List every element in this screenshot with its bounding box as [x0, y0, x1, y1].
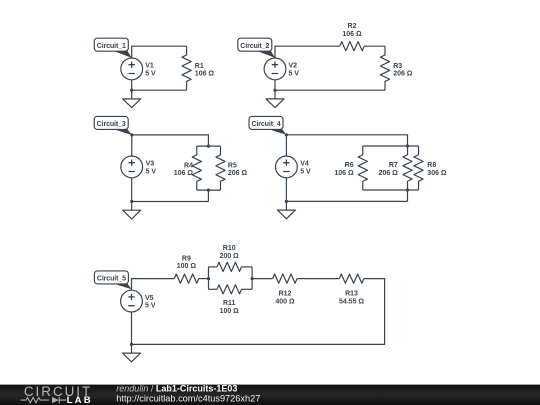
wire C5 rail R9-par: [199, 278, 209, 280]
wire C3 source bottom: [131, 178, 133, 202]
wire C3 par bottom branch: [197, 189, 221, 191]
junction C4 par top: [406, 144, 409, 147]
svg-text:200 Ω: 200 Ω: [220, 253, 240, 260]
wire C4 source top: [285, 135, 287, 156]
svg-text:Circuit_2: Circuit_2: [240, 43, 269, 50]
svg-text:R11: R11: [223, 300, 236, 307]
wire C2 top rail left: [275, 46, 340, 58]
label R12 value: [275, 291, 295, 306]
svg-text:106 Ω: 106 Ω: [342, 31, 362, 38]
svg-text:R12: R12: [279, 291, 292, 298]
ground C1: [123, 90, 141, 107]
label R1 value: [195, 63, 215, 78]
resistor R2: [340, 42, 365, 51]
label Circuit_2: [238, 38, 275, 58]
wire C5 par left vert: [208, 267, 210, 289]
label Circuit_1: [94, 38, 131, 58]
resistor R6: [358, 146, 367, 190]
label R11 value: [220, 300, 240, 315]
svg-text:Circuit_3: Circuit_3: [97, 121, 126, 128]
footer bar: [0, 385, 540, 405]
svg-text:R10: R10: [223, 245, 236, 252]
voltage source V1: [121, 58, 156, 80]
wire C3 par drop: [207, 190, 209, 201]
ground C3: [123, 202, 141, 219]
svg-text:5 V: 5 V: [300, 168, 311, 175]
svg-text:5 V: 5 V: [146, 168, 157, 175]
svg-text:5 V: 5 V: [145, 70, 156, 77]
voltage source V3: [121, 156, 157, 178]
label R7 value: [379, 162, 399, 177]
wire C4 source bottom: [285, 178, 287, 202]
svg-text:54.55 Ω: 54.55 Ω: [339, 299, 364, 306]
junction C4 gnd node: [285, 200, 288, 203]
ground C5: [123, 344, 141, 361]
svg-text:R9: R9: [182, 255, 191, 262]
wire C3 source top: [131, 135, 133, 156]
wire C5 par top lead L: [209, 266, 218, 268]
wire C4 par top branch: [363, 145, 419, 147]
svg-text:206 Ω: 206 Ω: [379, 170, 399, 177]
svg-text:R7: R7: [389, 162, 398, 169]
junction C1 gnd node: [130, 89, 133, 92]
wire C5 par top lead R: [242, 266, 253, 268]
svg-text:R2: R2: [348, 23, 357, 30]
svg-text:106 Ω: 106 Ω: [195, 71, 215, 78]
wire C5 source bottom: [131, 312, 133, 344]
wire C5 par bot lead R: [242, 288, 253, 290]
svg-text:206 Ω: 206 Ω: [228, 170, 248, 177]
junction C3 label node: [130, 133, 133, 136]
junction C4 par bottom: [406, 188, 409, 191]
label Circuit_3: [94, 116, 132, 134]
resistor R3: [380, 46, 389, 90]
svg-text:V4: V4: [300, 161, 309, 168]
wire C5 rail par-R12: [252, 278, 273, 280]
svg-text:400 Ω: 400 Ω: [275, 299, 295, 306]
ground C4: [277, 201, 295, 218]
svg-text:V2: V2: [289, 63, 298, 70]
resistor R12: [273, 274, 298, 283]
svg-text:206 Ω: 206 Ω: [393, 71, 413, 78]
svg-text:R13: R13: [345, 291, 358, 298]
label R4 value: [174, 162, 194, 177]
label R10 value: [220, 245, 240, 260]
label R5 value: [228, 162, 248, 177]
svg-text:5 V: 5 V: [289, 70, 300, 77]
svg-text:Circuit_1: Circuit_1: [97, 43, 126, 50]
svg-text:R6: R6: [345, 162, 354, 169]
svg-text:R3: R3: [393, 63, 402, 70]
wire C2 bottom rail: [275, 89, 385, 91]
svg-text:R4: R4: [184, 162, 193, 169]
svg-text:V1: V1: [145, 63, 154, 70]
wire C5 par bot lead L: [209, 288, 218, 290]
wire C5 rail R12-R13: [297, 278, 339, 280]
wire C2 source bottom: [274, 80, 276, 90]
label R9 value: [177, 255, 197, 270]
label R3 value: [393, 63, 413, 78]
wire C4 par drop: [407, 190, 409, 201]
junction C3 par bottom: [207, 189, 210, 192]
label R2 value: [342, 23, 362, 38]
resistor R4: [192, 146, 201, 190]
label R13 value: [339, 291, 364, 306]
label Circuit_5: [94, 271, 131, 289]
svg-text:100 Ω: 100 Ω: [177, 263, 197, 270]
junction C3 par top: [207, 145, 210, 148]
resistor R9: [174, 274, 199, 283]
svg-text:106 Ω: 106 Ω: [174, 170, 194, 177]
svg-text:Circuit_5: Circuit_5: [97, 276, 126, 283]
svg-text:5 V: 5 V: [145, 303, 156, 310]
wire C3 par top branch: [197, 145, 221, 147]
wire C1 source bottom: [131, 80, 133, 90]
svg-text:V5: V5: [145, 295, 154, 302]
svg-text:rendulin / Lab1-Circuits-1E03: rendulin / Lab1-Circuits-1E03: [116, 383, 237, 393]
resistor R1: [182, 46, 191, 90]
resistor R10: [217, 262, 242, 271]
wire C5 par right vert: [251, 267, 253, 289]
junction C2 gnd node: [273, 89, 276, 92]
wire C4 bottom rail: [286, 200, 407, 202]
svg-text:Circuit_4: Circuit_4: [251, 121, 280, 128]
resistor R13: [339, 274, 364, 283]
junction C5 gnd node: [130, 343, 133, 346]
wire C1 top rail: [132, 46, 187, 58]
resistor R7: [403, 146, 412, 190]
wire C4 top rail: [286, 135, 407, 146]
voltage source V2: [264, 58, 299, 80]
junction C5 par right: [251, 277, 254, 280]
wire C5 top rail left: [132, 279, 175, 291]
voltage source V5: [121, 290, 156, 312]
resistor R11: [217, 285, 242, 294]
wire C2 top rail right: [364, 45, 385, 47]
wire C3 top rail: [132, 135, 209, 146]
voltage source V4: [276, 156, 312, 178]
wire C1 bottom rail: [132, 89, 187, 91]
label R8 value: [427, 162, 447, 177]
resistor R5: [216, 146, 225, 190]
svg-text:100 Ω: 100 Ω: [220, 308, 240, 315]
svg-text:R5: R5: [228, 162, 237, 169]
resistor R8: [414, 146, 423, 190]
svg-text:http://circuitlab.com/c4tus972: http://circuitlab.com/c4tus9726xh27: [116, 393, 260, 403]
svg-text:V3: V3: [146, 161, 155, 168]
svg-text:106 Ω: 106 Ω: [334, 170, 354, 177]
CircuitLab logo resistor-diode symbol: [21, 397, 50, 402]
wire C3 bottom rail: [132, 201, 209, 203]
junction C5 par left: [207, 277, 210, 280]
wire C5 right side: [132, 279, 385, 345]
svg-text:R8: R8: [427, 162, 436, 169]
wire C4 par bottom branch: [363, 189, 419, 191]
label R6 value: [334, 162, 354, 177]
svg-text:LAB: LAB: [67, 395, 93, 405]
label Circuit_4: [249, 116, 286, 134]
svg-text:306 Ω: 306 Ω: [427, 170, 447, 177]
svg-text:R1: R1: [195, 63, 204, 70]
ground C2: [266, 90, 284, 107]
junction C3 gnd node: [130, 200, 133, 203]
junction C4 label node: [285, 133, 288, 136]
